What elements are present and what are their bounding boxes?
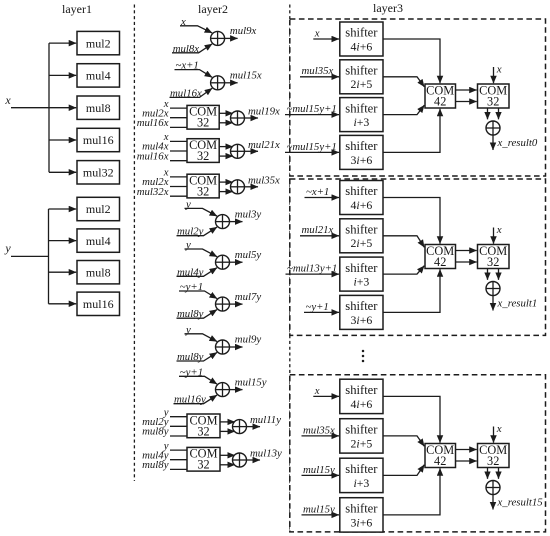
wire COM32 to adder left (x_result1): [487, 269, 489, 280]
wire x into COM32 top (x_result1): [493, 228, 495, 244]
svg-text:2i+5: 2i+5: [351, 436, 373, 450]
wire COM32 to adder left (x_result0): [487, 108, 489, 119]
svg-text:32: 32: [197, 185, 209, 199]
svg-text:x: x: [496, 423, 502, 435]
wire shifter 4i+6 to COM42 top (x_result1): [383, 198, 440, 244]
svg-text:shifter: shifter: [345, 462, 378, 476]
wire COM42 to COM32 lower (x_result1): [456, 261, 477, 263]
shifter box 3i+6 (x_result0): [340, 135, 383, 169]
wire mul8x to adder mul9x: [172, 44, 212, 53]
wire mul8y to adder mul7y: [177, 310, 218, 319]
svg-text:4i+6: 4i+6: [351, 198, 373, 212]
svg-text:shifter: shifter: [345, 101, 378, 115]
wire mul2y to adder mul3y: [177, 227, 218, 236]
wire x into COM32 top (x_result15): [493, 427, 495, 443]
svg-text:~mul13y+1: ~mul13y+1: [287, 263, 337, 275]
svg-text:mul35x: mul35x: [248, 174, 280, 186]
wire shifter 4i+6 to COM42 top (x_result15): [383, 396, 440, 442]
wire adder output mul19x: [245, 117, 259, 119]
wire adder output mul35x: [245, 186, 259, 188]
svg-text:mul2: mul2: [86, 202, 111, 216]
svg-text:shifter: shifter: [345, 223, 378, 237]
svg-text:shifter: shifter: [345, 64, 378, 78]
wire mul16x to adder mul15x: [170, 88, 213, 97]
box mul32 (x group): [77, 161, 120, 184]
shifter box 2i+5 (x_result15): [340, 419, 383, 453]
svg-text:mul8y: mul8y: [142, 426, 169, 438]
svg-text:mul19x: mul19x: [248, 106, 280, 118]
wire mul16x into COM box: [170, 126, 187, 128]
svg-text:mul9y: mul9y: [235, 334, 262, 346]
box mul4 (x group): [77, 64, 120, 87]
wire COM42 to COM32 upper (x_result1): [456, 250, 477, 252]
svg-text:shifter: shifter: [345, 423, 378, 437]
adder mul15x: [211, 76, 225, 90]
svg-text:mul16x: mul16x: [137, 150, 169, 162]
svg-text:32: 32: [197, 116, 209, 130]
dashed block frame (x_result0): [290, 19, 546, 176]
wire adder output mul9y: [230, 346, 243, 348]
dashed block frame (x_result1): [290, 179, 546, 335]
wire x into shifter: [313, 395, 339, 397]
wire ~mul15y+1 into shifter: [285, 114, 339, 116]
wire adder output mul5y: [230, 261, 243, 263]
svg-text:3i+6: 3i+6: [351, 313, 373, 327]
shifter box 3i+6 (x_result15): [340, 498, 383, 532]
wire x to mul8: [11, 107, 76, 109]
adder mul35x: [231, 180, 245, 194]
wire ~y+1 to adder mul15y: [179, 376, 217, 384]
svg-text:2i+5: 2i+5: [351, 236, 373, 250]
svg-text:32: 32: [197, 424, 209, 438]
box mul2 (y group): [77, 197, 120, 220]
wire ~x+1 to adder mul15x: [175, 70, 213, 78]
svg-text:3i+6: 3i+6: [351, 515, 373, 529]
wire mul2y into COM box: [170, 425, 187, 427]
svg-text:y: y: [4, 241, 11, 255]
svg-text:42: 42: [434, 454, 446, 468]
wire x trunk vertical: [48, 43, 50, 172]
svg-text:~mul15y+1: ~mul15y+1: [287, 103, 337, 115]
wire mul4x into COM box: [170, 150, 187, 152]
wire COM to adder lower (mul19x): [219, 122, 233, 124]
svg-text:mul16: mul16: [83, 297, 114, 311]
wire branch to mul16 (x): [49, 139, 76, 141]
wire COM32 to adder right (x_result0): [498, 108, 500, 119]
adder mul3y: [216, 215, 230, 229]
svg-text:mul15y: mul15y: [303, 464, 335, 476]
wire mul8y into COM box: [170, 468, 187, 470]
wire branch to mul2 (y): [49, 208, 77, 210]
wire COM to adder lower (mul13y): [220, 464, 235, 466]
wire y into COM box: [170, 416, 187, 418]
COM 32 box (x_result1): [478, 245, 510, 269]
wire mul2x into COM box: [170, 186, 187, 188]
svg-text:mul35x: mul35x: [303, 424, 335, 436]
box mul2 (x group): [77, 31, 120, 54]
wire COM32 to adder right (x_result1): [498, 269, 500, 280]
separator layer1/layer2 dashed: [133, 5, 135, 482]
wire mul4y to adder mul5y: [177, 268, 218, 277]
COM 32 box (mul21x): [187, 139, 219, 163]
wire adder output mul3y: [230, 221, 243, 223]
wire shifter 4i+6 to COM42 top (x_result0): [383, 39, 440, 83]
svg-text:mul9x: mul9x: [230, 25, 257, 37]
wire ~y+1 into shifter: [304, 311, 339, 313]
wire branch to mul4 (y): [49, 240, 77, 242]
wire adder output mul15x: [225, 82, 238, 84]
svg-text:x: x: [496, 64, 502, 76]
wire shifter 3i+6 to COM42 bottom (x_result15): [383, 468, 440, 515]
adder mul21x: [231, 144, 245, 158]
wire COM to adder upper (mul35x): [219, 181, 233, 183]
wire shifter 3i+6 to COM42 bottom (x_result0): [383, 109, 440, 153]
wire ~x+1 into shifter: [305, 197, 340, 199]
wire mul2x into COM box: [170, 117, 187, 119]
shifter box 4i+6 (x_result0): [340, 22, 383, 56]
wire branch to mul16 (y): [49, 303, 77, 305]
wire y to trunk: [11, 255, 49, 257]
wire x into COM box: [170, 107, 187, 109]
wire adder output mul13y: [247, 459, 261, 461]
wire adder to x_result1: [492, 296, 494, 311]
COM 32 box (mul19x): [187, 105, 219, 129]
wire mul21x into shifter: [300, 235, 339, 237]
COM 32 box (mul11y): [187, 414, 220, 438]
wire adder output mul21x: [245, 150, 259, 152]
svg-text:mul4: mul4: [86, 234, 111, 248]
shifter box i+3 (x_result15): [340, 458, 383, 492]
wire mul35x into shifter: [300, 76, 339, 78]
svg-text:mul13y: mul13y: [250, 448, 282, 460]
COM 42 box (x_result1): [425, 245, 456, 269]
svg-text:42: 42: [434, 94, 446, 108]
adder output (x_result0): [486, 121, 500, 135]
wire shifter i+3 to COM42 left (x_result0): [383, 105, 424, 114]
wire COM42 to COM32 lower (x_result15): [456, 460, 477, 462]
wire COM42 to COM32 lower (x_result0): [456, 101, 477, 103]
wire branch to mul32 (x): [49, 171, 76, 173]
wire adder output mul9x: [225, 37, 238, 39]
wire mul15y into shifter: [302, 514, 340, 516]
COM 32 box (mul13y): [187, 447, 220, 471]
wire adder output mul11y: [247, 426, 261, 428]
wire ~y+1 to adder mul7y: [179, 291, 217, 299]
COM 32 box (x_result0): [478, 84, 510, 108]
svg-text:3i+6: 3i+6: [351, 153, 373, 167]
adder mul9x: [211, 31, 225, 45]
COM 32 box (mul35x): [187, 174, 219, 198]
wire mul16x into COM box: [170, 160, 187, 162]
wire mul35x into shifter: [302, 435, 340, 437]
wire ~mul13y+1 into shifter: [286, 273, 340, 275]
svg-text:shifter: shifter: [345, 184, 378, 198]
wire COM32 to adder right (x_result15): [498, 468, 500, 479]
svg-text:32: 32: [197, 149, 209, 163]
svg-text:2i+5: 2i+5: [351, 77, 373, 91]
svg-text:32: 32: [487, 454, 499, 468]
shifter box 2i+5 (x_result0): [340, 60, 383, 94]
wire shifter i+3 to COM42 left (x_result15): [383, 465, 424, 476]
shifter box i+3 (x_result1): [340, 257, 383, 291]
wire branch to mul8 (y): [49, 271, 77, 273]
svg-text:mul16x: mul16x: [137, 117, 169, 129]
wire mul15y into shifter: [302, 474, 340, 476]
svg-text:x: x: [314, 385, 320, 397]
svg-text:x: x: [496, 224, 502, 236]
svg-text:i+3: i+3: [353, 476, 369, 490]
svg-text:mul7y: mul7y: [235, 291, 262, 303]
wire y to adder mul9y: [185, 334, 218, 342]
svg-text:shifter: shifter: [345, 261, 378, 275]
wire COM to adder upper (mul19x): [219, 112, 233, 114]
svg-text:mul4: mul4: [86, 69, 111, 83]
svg-text:shifter: shifter: [345, 26, 378, 40]
adder mul15y: [216, 383, 230, 397]
svg-text:mul21x: mul21x: [248, 139, 280, 151]
wire mul32x into COM box: [170, 195, 187, 197]
wire shifter i+3 to COM42 left (x_result1): [383, 266, 424, 274]
wire COM42 to COM32 upper (x_result0): [456, 89, 477, 91]
COM 42 box (x_result15): [425, 444, 456, 468]
wire COM to adder lower (mul21x): [219, 155, 233, 157]
svg-text:mul35x: mul35x: [302, 65, 334, 77]
svg-text:~mul15y+1: ~mul15y+1: [287, 141, 337, 153]
wire shifter 2i+5 to COM42 left (x_result0): [383, 77, 424, 87]
svg-text:x: x: [4, 93, 11, 107]
wire adder output mul7y: [230, 303, 243, 305]
wire COM to adder lower (mul35x): [219, 191, 233, 193]
wire shifter 2i+5 to COM42 left (x_result15): [383, 436, 424, 446]
svg-text:mul3y: mul3y: [235, 208, 262, 220]
svg-text:shifter: shifter: [345, 299, 378, 313]
svg-text:layer2: layer2: [198, 2, 228, 16]
svg-text:mul32: mul32: [83, 166, 114, 180]
wire COM to adder upper (mul11y): [220, 421, 235, 423]
svg-text:layer1: layer1: [62, 2, 92, 16]
adder output (x_result1): [486, 282, 500, 296]
svg-text:x_result15: x_result15: [497, 497, 544, 509]
svg-text:mul8: mul8: [86, 101, 111, 115]
svg-text:shifter: shifter: [345, 383, 378, 397]
box mul8 (x group): [77, 96, 120, 119]
shifter box 4i+6 (x_result15): [340, 379, 383, 413]
adder mul19x: [231, 111, 245, 125]
svg-text:i+3: i+3: [353, 275, 369, 289]
COM 42 box (x_result0): [425, 84, 456, 108]
wire ~mul15y+1 into shifter: [285, 151, 339, 153]
svg-text:4i+6: 4i+6: [351, 397, 373, 411]
svg-text:mul15y: mul15y: [303, 503, 335, 515]
shifter box i+3 (x_result0): [340, 98, 383, 132]
wire mul4y into COM box: [170, 459, 187, 461]
wire x into COM32 top (x_result0): [493, 67, 495, 83]
wire x into shifter: [313, 38, 339, 40]
svg-text:32: 32: [487, 255, 499, 269]
svg-text:mul21x: mul21x: [302, 224, 334, 236]
wire adder to x_result15: [492, 495, 494, 510]
adder mul5y: [216, 255, 230, 269]
wire COM32 to adder left (x_result15): [487, 468, 489, 479]
svg-text:mul11y: mul11y: [250, 414, 281, 426]
wire adder output mul15y: [230, 389, 243, 391]
svg-text:~x+1: ~x+1: [306, 186, 329, 198]
shifter box 4i+6 (x_result1): [340, 181, 383, 215]
svg-text:42: 42: [434, 255, 446, 269]
wire x to adder mul9x: [180, 26, 212, 33]
adder mul9y: [216, 340, 230, 354]
svg-text:4i+6: 4i+6: [351, 39, 373, 53]
svg-text:mul15x: mul15x: [230, 70, 262, 82]
box mul16 (y group): [77, 292, 120, 315]
svg-text:x: x: [314, 27, 320, 39]
svg-text:x_result1: x_result1: [497, 298, 538, 310]
dashed block frame (x_result15): [290, 375, 546, 532]
adder output (x_result15): [486, 481, 500, 495]
adder mul13y: [233, 453, 247, 467]
svg-text:shifter: shifter: [345, 502, 378, 516]
wire x into COM box: [170, 140, 187, 142]
ellipsis between blocks: [362, 350, 365, 363]
svg-text:shifter: shifter: [345, 139, 378, 153]
svg-text:i+3: i+3: [353, 115, 369, 129]
wire y trunk vertical: [48, 209, 50, 304]
wire branch to mul4 (x): [49, 74, 76, 76]
svg-text:~y+1: ~y+1: [306, 301, 329, 313]
wire y into COM box: [170, 449, 187, 451]
wire adder to x_result0: [492, 135, 494, 150]
box mul4 (y group): [77, 229, 120, 252]
COM 32 box (x_result15): [478, 444, 510, 468]
wire branch to mul2 (x): [49, 42, 76, 44]
svg-text:32: 32: [197, 458, 209, 472]
wire shifter 3i+6 to COM42 bottom (x_result1): [383, 269, 440, 312]
wire COM to adder lower (mul11y): [220, 430, 235, 432]
wire y to adder mul3y: [185, 208, 218, 216]
wire COM to adder upper (mul21x): [219, 146, 233, 148]
svg-text:mul5y: mul5y: [235, 249, 262, 261]
wire COM42 to COM32 upper (x_result15): [456, 449, 477, 451]
svg-text:mul2: mul2: [86, 36, 111, 50]
svg-text:x_result0: x_result0: [497, 137, 538, 149]
adder mul7y: [216, 297, 230, 311]
svg-text:layer3: layer3: [373, 1, 403, 15]
wire shifter 2i+5 to COM42 left (x_result1): [383, 236, 424, 248]
shifter box 3i+6 (x_result1): [340, 295, 383, 329]
svg-text:mul8: mul8: [86, 265, 111, 279]
svg-text:mul15y: mul15y: [235, 376, 267, 388]
wire mul16y to adder mul15y: [174, 395, 218, 404]
wire mul8y into COM box: [170, 435, 187, 437]
svg-text:mul8y: mul8y: [142, 459, 169, 471]
wire mul8y to adder mul9y: [177, 352, 218, 361]
wire COM to adder upper (mul13y): [220, 454, 235, 456]
svg-text:32: 32: [487, 94, 499, 108]
box mul16 (x group): [77, 128, 120, 151]
svg-text:mul32x: mul32x: [137, 186, 169, 198]
separator layer2/layer3 dashed: [289, 5, 291, 533]
svg-text:mul16: mul16: [83, 133, 114, 147]
adder mul11y: [233, 420, 247, 434]
shifter box 2i+5 (x_result1): [340, 219, 383, 253]
wire y to adder mul5y: [185, 249, 218, 257]
box mul8 (y group): [77, 261, 120, 284]
wire x into COM box: [170, 176, 187, 178]
